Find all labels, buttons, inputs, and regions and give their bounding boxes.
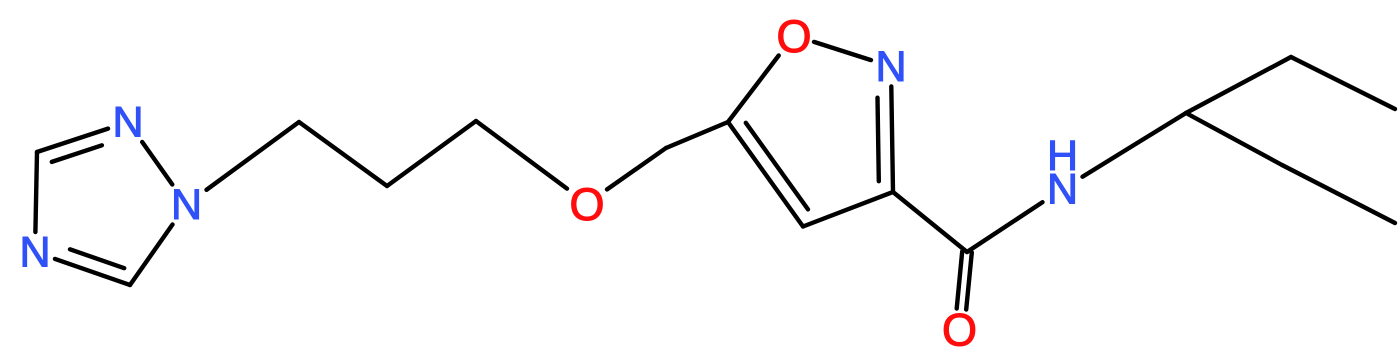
bond CH2-CH3 (lower ethyl) bbox=[1282, 165, 1395, 223]
svg-text:N: N bbox=[171, 181, 202, 229]
bond CH2-CH2 bbox=[299, 122, 387, 186]
bond CH2-CH3 (upper ethyl) bbox=[1291, 57, 1395, 109]
bond C3-C4 (isoxazole) bbox=[803, 192, 893, 227]
svg-text:O: O bbox=[569, 179, 604, 230]
bond CH-CH2 (lower ethyl) bbox=[1186, 113, 1282, 165]
bond C3-C(=O) bbox=[893, 192, 967, 252]
bond O1-N2 (isoxazole) bbox=[814, 42, 871, 60]
bond C3-N4 (triazole) bbox=[35, 152, 37, 232]
svg-text:N: N bbox=[875, 43, 906, 91]
svg-text:N: N bbox=[19, 229, 50, 277]
bond C5-N1 (triazole) bbox=[130, 225, 173, 286]
bond CH-CH2 (upper ethyl) bbox=[1186, 57, 1291, 113]
svg-text:O: O bbox=[942, 305, 977, 356]
double bond N2=C3 (isoxazole) bbox=[891, 87, 893, 193]
bond N-CH bbox=[1083, 113, 1187, 177]
bond C5-O1 (isoxazole) bbox=[728, 56, 779, 123]
svg-text:N: N bbox=[112, 99, 143, 147]
bond N1-CH2 bbox=[207, 122, 300, 190]
carbonyl double bond C=O bbox=[957, 252, 963, 309]
amide bond C-N bbox=[967, 202, 1043, 252]
bond N1-N2 (triazole) bbox=[142, 142, 172, 185]
bond CH2-O bbox=[476, 121, 567, 189]
svg-text:H: H bbox=[1047, 132, 1078, 180]
double bond C4=C5 (isoxazole) bbox=[728, 122, 803, 227]
bond CH2-CH2 bbox=[387, 121, 476, 186]
double bond N4=C5 (triazole) bbox=[55, 259, 130, 285]
bond O-CH2 bbox=[607, 148, 666, 189]
svg-text:O: O bbox=[776, 11, 811, 62]
bond CH2-C5 (isoxazole) bbox=[666, 122, 728, 148]
double bond N2=C3 (triazole) bbox=[37, 129, 108, 152]
